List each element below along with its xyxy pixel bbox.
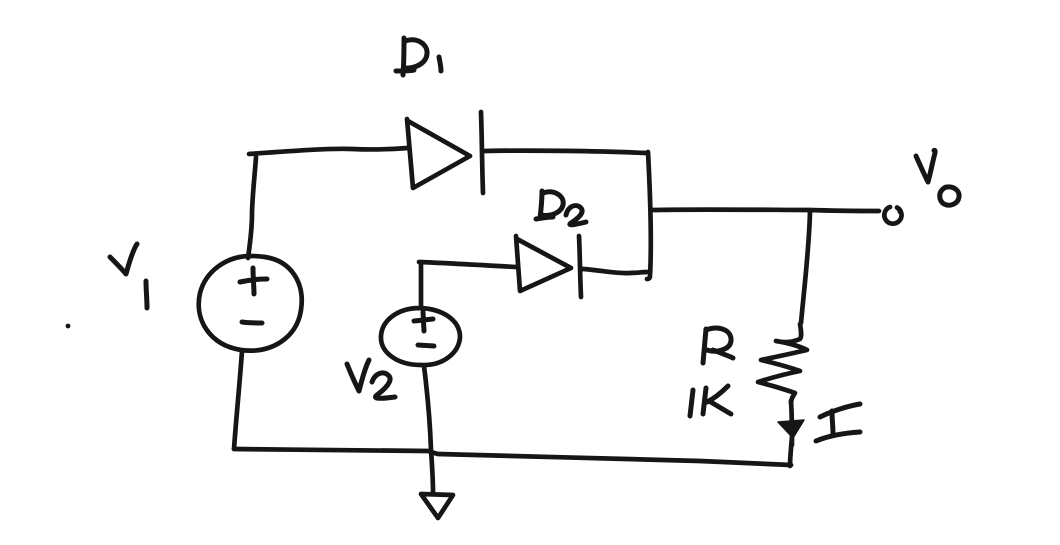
label V2	[347, 360, 395, 398]
wire D1 cathode to node A corner	[485, 151, 651, 279]
label D2	[536, 191, 586, 225]
label Vo	[916, 150, 959, 205]
label R	[703, 328, 733, 363]
voltage source V2	[381, 308, 460, 365]
wire V1 top to D1 anode	[248, 148, 408, 258]
ground	[421, 494, 453, 518]
label V1	[110, 244, 147, 308]
wire resistor to bottom rail	[790, 401, 792, 466]
wire V2 bottom through rail to ground	[424, 366, 433, 492]
wire D2 cathode to node A	[583, 269, 647, 273]
diode D2	[516, 236, 581, 297]
wire output node down to resistor	[801, 212, 810, 323]
wire V2 top to D2 anode	[419, 262, 516, 306]
label 1K	[690, 386, 731, 416]
current arrow I	[778, 420, 804, 438]
wire V1 bottom to rail	[234, 351, 242, 449]
wire node A to output terminal	[652, 210, 879, 211]
diode D1	[407, 112, 483, 193]
label I	[816, 404, 860, 441]
voltage source V1	[199, 256, 302, 351]
resistor R	[758, 324, 807, 403]
stray ink dot	[66, 324, 71, 329]
output terminal Vo	[884, 207, 901, 224]
bottom rail wire	[234, 449, 791, 465]
label D1	[396, 38, 441, 75]
